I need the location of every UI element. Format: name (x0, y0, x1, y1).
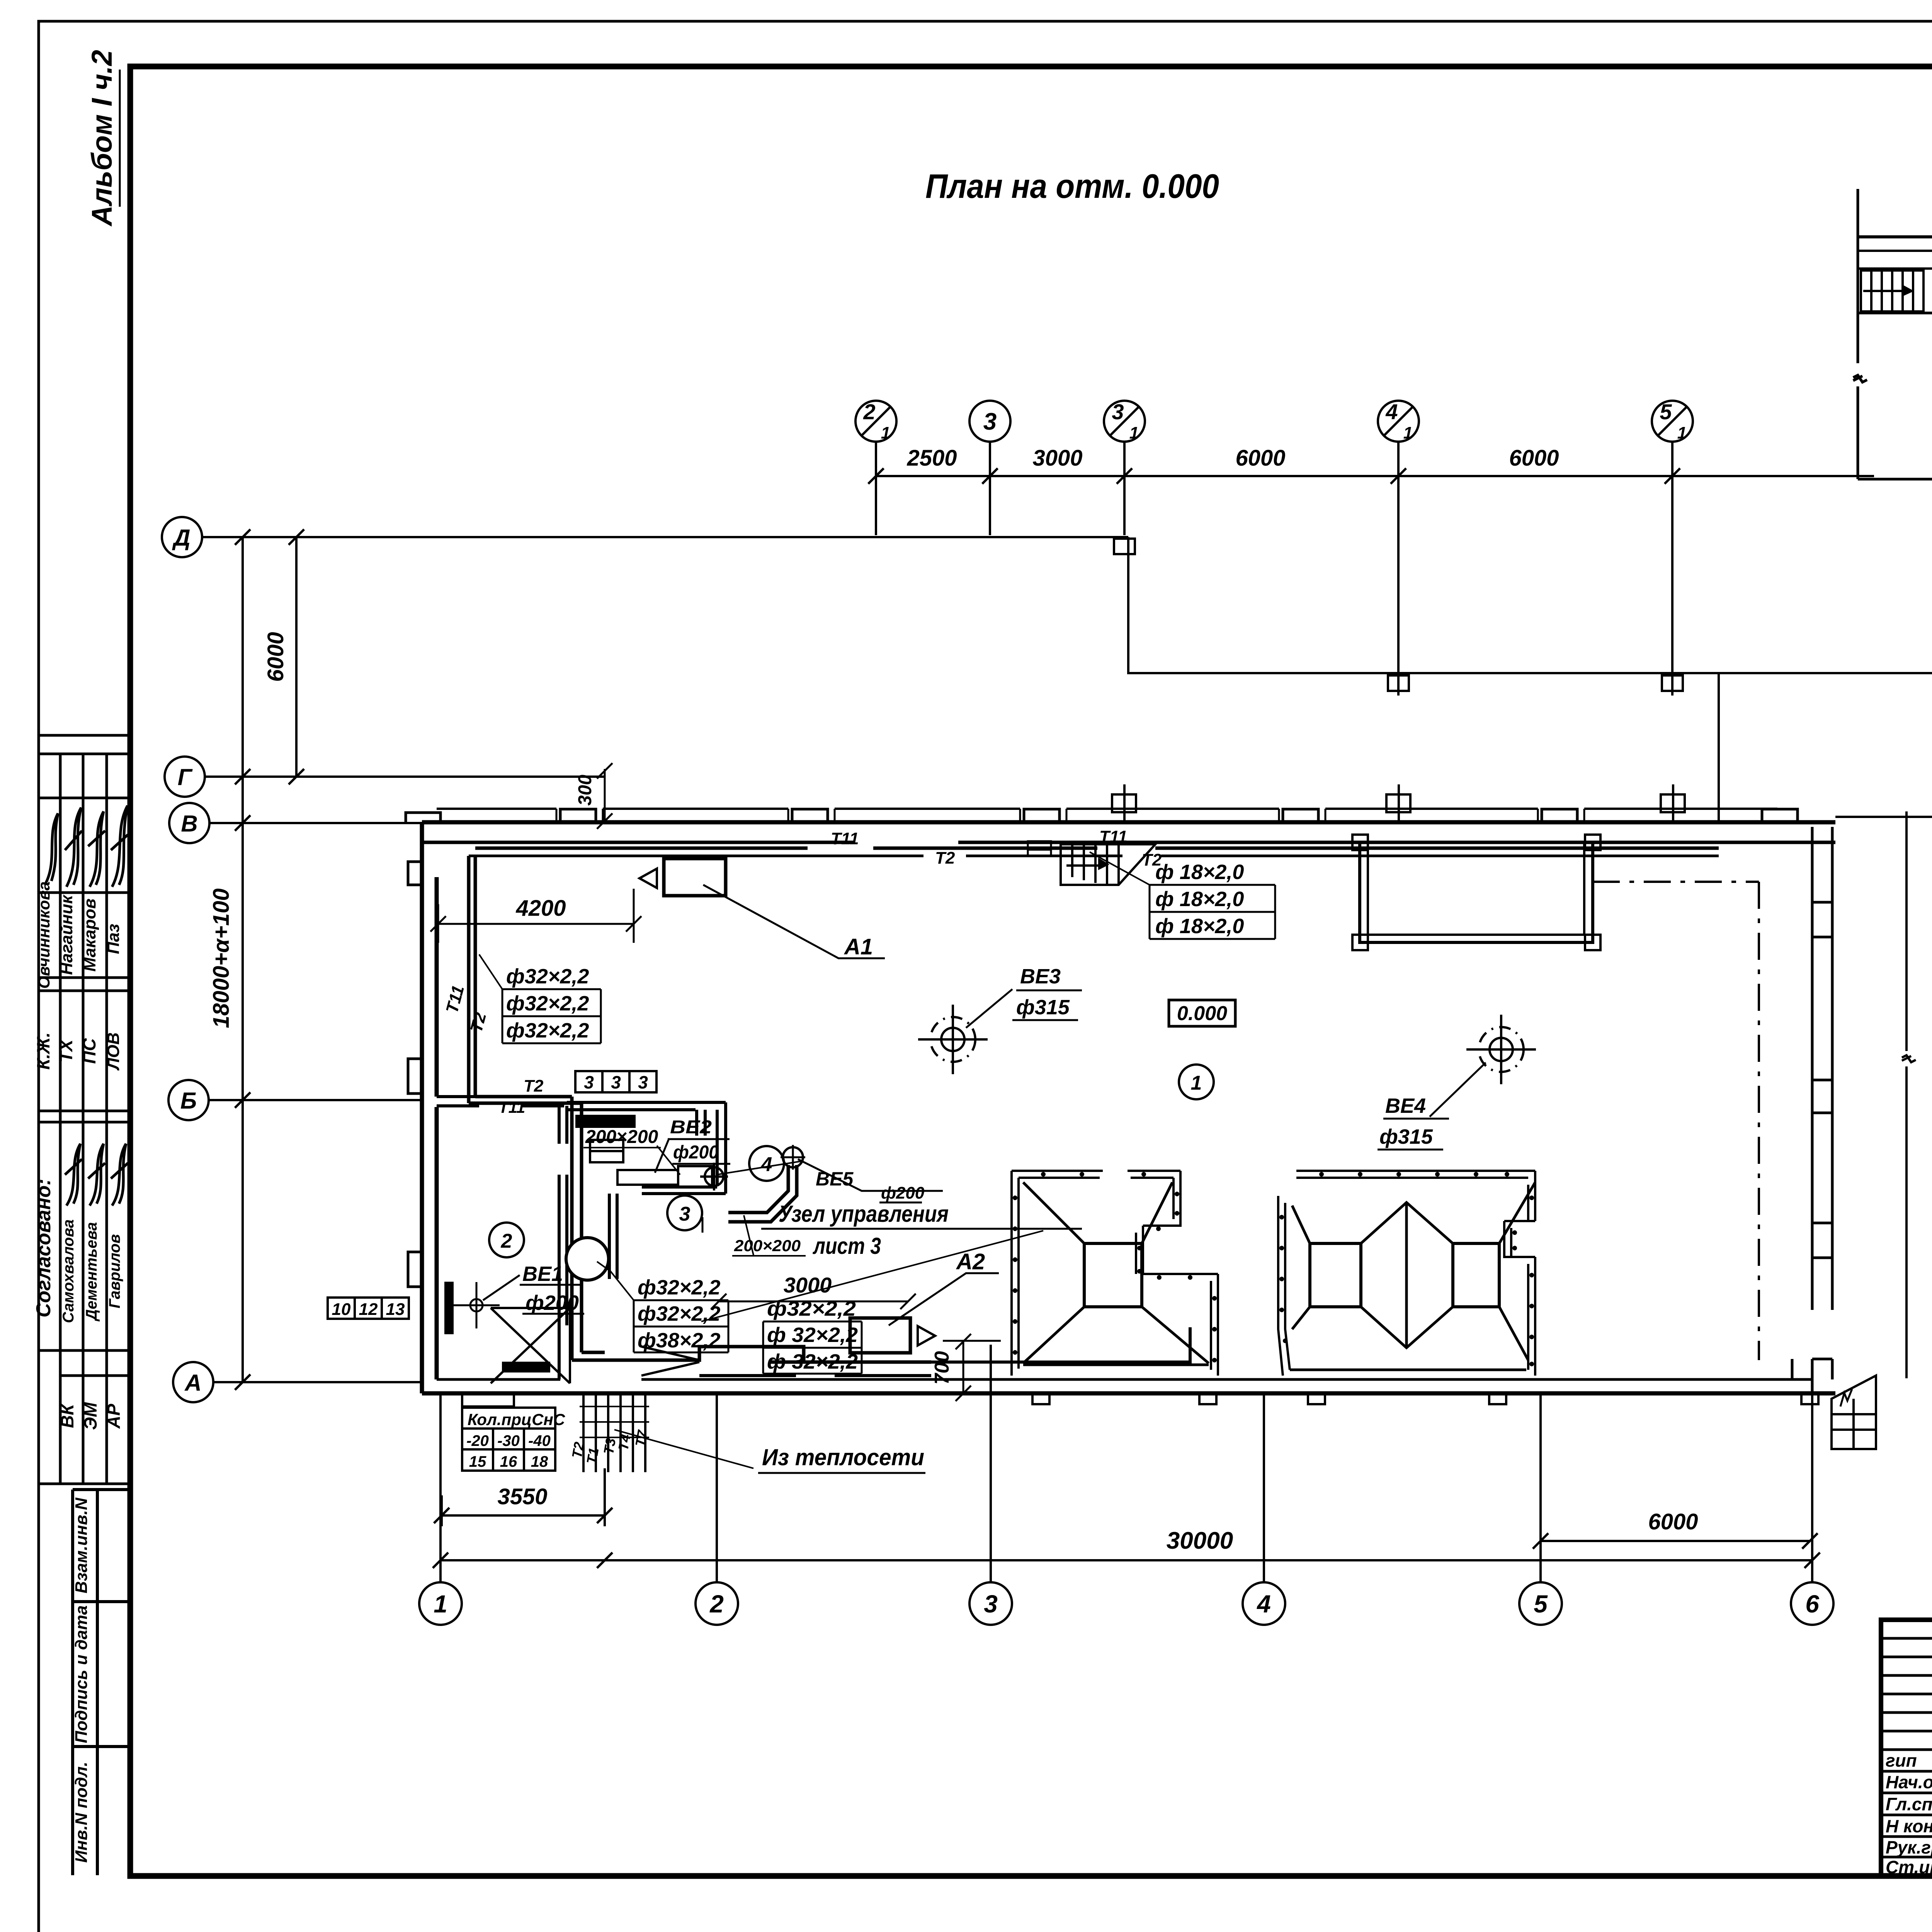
Согласовано + names (32, 1179, 123, 1323)
pipes left riser (469, 856, 582, 1360)
axis circle Г right (1835, 796, 1932, 837)
svg-text:16: 16 (500, 1453, 517, 1470)
thin upper rows (1881, 1638, 1932, 1731)
svg-text:200×200: 200×200 (585, 1127, 658, 1147)
upper plan left edge (1853, 189, 1867, 479)
svg-text:2500: 2500 (906, 446, 957, 471)
svg-text:ф32×2,2: ф32×2,2 (506, 965, 589, 988)
dim 6000 bottom right (1533, 1509, 1818, 1549)
svg-text:Т4: Т4 (615, 1433, 634, 1452)
BE5 elbow duct (728, 1145, 805, 1222)
svg-text:Рук.гр.: Рук.гр. (1886, 1837, 1932, 1857)
svg-text:А1: А1 (844, 934, 873, 959)
BE3 label (966, 965, 1082, 1028)
upper plan top wall (1858, 237, 1932, 269)
svg-text:4: 4 (761, 1153, 772, 1176)
svg-text:3: 3 (983, 408, 997, 435)
svg-text:ф38×2,2: ф38×2,2 (638, 1329, 720, 1352)
svg-text:Взам.инв.N: Взам.инв.N (72, 1497, 91, 1594)
axis circle Б left (168, 1080, 423, 1120)
svg-text:Дементьева: Дементьева (83, 1222, 100, 1322)
svg-text:Т11: Т11 (1099, 827, 1128, 846)
svg-text:К.Ж.: К.Ж. (33, 1032, 53, 1070)
svg-text:3: 3 (984, 1590, 998, 1618)
svg-text:ЭМ: ЭМ (80, 1402, 100, 1430)
dim 3000 interior (711, 1273, 916, 1309)
svg-text:12: 12 (359, 1300, 378, 1319)
dim 4200 (430, 889, 641, 943)
svg-text:3000: 3000 (1032, 446, 1082, 471)
svg-text:Инв.N подл.: Инв.N подл. (72, 1762, 91, 1863)
10 12 13 boxes (328, 1298, 409, 1319)
LEFT STAMP (32, 735, 130, 1875)
svg-text:Кол.прцСнС: Кол.прцСнС (468, 1410, 565, 1429)
heating pipes top wall (469, 841, 1719, 856)
svg-text:ВЕ1: ВЕ1 (522, 1262, 563, 1286)
svg-text:200×200: 200×200 (734, 1236, 801, 1255)
svg-text:3550: 3550 (497, 1484, 547, 1509)
dim 700 (931, 1334, 1001, 1401)
big valve circle (566, 1238, 609, 1280)
svg-text:Паз: Паз (104, 924, 123, 954)
TITLE BLOCK (1881, 1620, 1932, 1916)
dim 3550 (434, 1468, 612, 1526)
stair top center (1061, 844, 1155, 885)
svg-text:АР: АР (104, 1404, 124, 1429)
canopy column mark 3/1 (1114, 539, 1135, 554)
phi32 stack lower right (763, 1297, 862, 1374)
svg-text:ф315: ф315 (1016, 996, 1070, 1019)
UPPER PLAN (1853, 87, 1932, 620)
canopy column mark 5/1 (1662, 673, 1683, 696)
svg-text:13: 13 (386, 1300, 405, 1319)
svg-text:Нач.отд.: Нач.отд. (1886, 1772, 1932, 1792)
svg-text:ВК: ВК (57, 1403, 77, 1428)
svg-text:Подпись и дата: Подпись и дата (72, 1605, 91, 1743)
axis circle 4/1 top (1378, 400, 1419, 673)
bottom wall (422, 1379, 1835, 1406)
svg-text:15: 15 (469, 1453, 486, 1470)
svg-text:ф32×2,2: ф32×2,2 (638, 1302, 720, 1325)
svg-text:В: В (181, 811, 197, 837)
right wall window strip (1792, 827, 1832, 1393)
axis circle 1 bottom (419, 1395, 462, 1625)
svg-text:ВЕ4: ВЕ4 (1385, 1094, 1426, 1117)
svg-text:гип: гип (1886, 1750, 1917, 1770)
phi32 stack lower left (597, 1262, 728, 1352)
phi32 stack left upper (479, 954, 601, 1043)
axis circle В left (169, 803, 423, 843)
MAIN PLAN DETAILS (328, 763, 1876, 1473)
svg-text:1: 1 (1129, 423, 1139, 442)
svg-text:ф315: ф315 (1379, 1125, 1433, 1148)
svg-text:1: 1 (434, 1590, 447, 1618)
vent BE3 symbol (918, 1005, 988, 1074)
svg-text:-30: -30 (497, 1432, 520, 1449)
top wall outer band (422, 809, 1835, 842)
svg-text:Нагайник: Нагайник (57, 894, 76, 975)
svg-text:Т1: Т1 (583, 1447, 602, 1465)
svg-text:Овчинникова: Овчинникова (35, 881, 53, 989)
room circle 1 (1179, 1065, 1214, 1099)
room circle 2 (489, 1223, 524, 1257)
stair flight 1 (1861, 270, 1923, 311)
0.000 level box (1169, 1000, 1235, 1026)
riser bundle to heat main (569, 1393, 651, 1472)
svg-text:Ст.инж: Ст.инж (1886, 1857, 1932, 1877)
phi18 stack top (1090, 852, 1275, 939)
svg-text:ф32×2,2: ф32×2,2 (506, 1019, 589, 1042)
svg-text:6000: 6000 (1648, 1509, 1698, 1534)
interior partition axis Б (437, 1097, 564, 1106)
MAIN PLAN WALLS (406, 537, 1916, 1406)
svg-text:Н контр.: Н контр. (1886, 1816, 1932, 1836)
top wall column crosses (1112, 784, 1685, 822)
left dim 18000+a+100 (209, 529, 250, 1390)
svg-text:0.000: 0.000 (1177, 1002, 1227, 1025)
200x200 label upper (583, 1127, 680, 1175)
svg-text:3: 3 (611, 1072, 621, 1092)
svg-text:ВЕ2: ВЕ2 (670, 1117, 712, 1138)
MAIN PLAN AXES (162, 400, 1932, 1625)
left hopper (1012, 1171, 1218, 1376)
svg-text:Д: Д (172, 525, 190, 551)
upper plan bottom line (1858, 479, 1932, 488)
svg-text:Гаврилов: Гаврилов (106, 1234, 123, 1308)
top dimension line (868, 446, 1874, 484)
pipe labels T11 T2 left (442, 983, 544, 1116)
axis circle 5 bottom (1519, 1395, 1562, 1625)
axis circle 6 bottom (1791, 1395, 1833, 1625)
left hopper rivet dots (1013, 1172, 1217, 1362)
svg-text:ф 18×2,0: ф 18×2,0 (1155, 888, 1244, 911)
svg-text:ф 18×2,0: ф 18×2,0 (1155, 861, 1244, 884)
right hopper rivet dots (1279, 1172, 1534, 1366)
svg-text:700: 700 (931, 1351, 953, 1385)
svg-text:1: 1 (1191, 1072, 1202, 1094)
BE5 label (798, 1159, 943, 1202)
svg-text:4200: 4200 (515, 896, 566, 921)
svg-text:10: 10 (332, 1300, 351, 1319)
svg-text:ф32×2,2: ф32×2,2 (638, 1276, 720, 1299)
svg-text:18: 18 (531, 1453, 548, 1470)
svg-text:2: 2 (863, 400, 875, 424)
signatures row 1 (45, 806, 128, 887)
svg-text:Г: Г (178, 764, 193, 790)
svg-text:Б: Б (180, 1088, 197, 1114)
svg-text:ф200: ф200 (526, 1291, 579, 1315)
axis circle Д left (162, 517, 1128, 557)
bottom dim 30000 (433, 1527, 1820, 1568)
stair bottom edge (1858, 237, 1932, 313)
dim 300 (575, 763, 612, 829)
A1 unit (639, 859, 885, 959)
uzel vvoda room walls (567, 1102, 726, 1279)
stamp upper box grid (39, 735, 130, 1484)
dash-dot opening boundary (1593, 882, 1759, 1360)
kol table (462, 1408, 565, 1471)
right hopper (1278, 1171, 1535, 1376)
svg-text:3: 3 (638, 1072, 648, 1092)
svg-text:ВЕ3: ВЕ3 (1020, 965, 1061, 988)
svg-text:300: 300 (575, 775, 595, 806)
svg-text:-20: -20 (466, 1432, 489, 1449)
svg-text:Т2: Т2 (935, 849, 955, 867)
BE1 symbol and label (453, 1262, 584, 1328)
svg-text:ф200: ф200 (881, 1184, 925, 1202)
svg-text:Гл.спец.: Гл.спец. (1886, 1794, 1932, 1814)
svg-text:Т11: Т11 (498, 1098, 525, 1116)
svg-text:4: 4 (1385, 400, 1398, 424)
BE2 label (655, 1117, 802, 1175)
svg-text:6000: 6000 (1509, 446, 1559, 471)
uzel upravleniya note (701, 1201, 1082, 1321)
svg-text:4: 4 (1256, 1590, 1271, 1618)
canopy outline axis Д step (1128, 537, 1719, 822)
svg-text:Узел управления: Узел управления (779, 1201, 949, 1227)
axis circle 4 bottom (1243, 1395, 1285, 1625)
svg-text:ф32×2,2: ф32×2,2 (506, 992, 589, 1015)
svg-text:2: 2 (501, 1230, 512, 1252)
svg-text:1: 1 (881, 423, 890, 442)
axis circle 3 top (969, 401, 1010, 535)
svg-text:3: 3 (584, 1072, 594, 1092)
BE2 equipment in uzel vvoda (577, 1116, 728, 1190)
svg-text:Из теплосети: Из теплосети (762, 1444, 924, 1470)
svg-text:ф 18×2,0: ф 18×2,0 (1155, 915, 1244, 938)
pipe labels T11 T2 top (831, 827, 1162, 869)
iz teploseti note (614, 1430, 925, 1473)
axis circle 2 bottom (696, 1395, 738, 1625)
svg-text:Согласовано:: Согласовано: (32, 1179, 55, 1317)
break line right of building (1902, 811, 1916, 1378)
svg-text:6: 6 (1805, 1590, 1819, 1618)
interior partition room2 vertical (559, 1106, 567, 1379)
svg-text:3: 3 (679, 1203, 690, 1225)
axis circle Г/1 right (1132, 657, 1932, 699)
name rows (1881, 1750, 1932, 1857)
svg-text:3000: 3000 (784, 1273, 832, 1297)
200x200 label lower (732, 1215, 806, 1256)
svg-text:ТХ: ТХ (56, 1039, 76, 1062)
pipes bottom run (572, 1327, 1190, 1376)
axis circle 5/1 top (1652, 400, 1693, 673)
svg-text:лист 3: лист 3 (813, 1233, 881, 1259)
svg-text:Самохвалова: Самохвалова (60, 1219, 77, 1323)
vent BE4 symbol (1466, 1015, 1536, 1084)
left wall (406, 813, 440, 1393)
svg-text:18000+α+100: 18000+α+100 (209, 888, 234, 1028)
axis circle 3/1 top (1104, 400, 1145, 535)
svg-text:ПС: ПС (79, 1038, 99, 1064)
axis circle 3 bottom (969, 1345, 1012, 1625)
svg-text:3: 3 (1112, 400, 1124, 424)
svg-text:Макаров: Макаров (80, 898, 99, 971)
svg-text:План на отм. 0.000: План на отм. 0.000 (925, 167, 1219, 205)
A2 unit (850, 1249, 999, 1353)
approval labels ВК ЭМ АР (57, 1402, 124, 1430)
album label Альбом I ч.2 (86, 50, 120, 227)
svg-text:6000: 6000 (263, 632, 288, 682)
svg-text:1: 1 (1677, 423, 1687, 442)
svg-text:2: 2 (709, 1590, 724, 1618)
signatures row 2 (65, 1144, 128, 1206)
room circle 3 (667, 1196, 702, 1233)
pipe junction X (491, 1308, 570, 1383)
axis circle 2/1 top (855, 400, 896, 535)
title block frame (1881, 1620, 1932, 1876)
svg-text:А: А (184, 1370, 201, 1396)
MAIN TITLE (925, 167, 1219, 205)
axis circle А left (173, 1362, 423, 1402)
svg-text:ф200: ф200 (673, 1142, 719, 1163)
svg-text:ф 32×2,2: ф 32×2,2 (767, 1323, 858, 1347)
room circle 4 (749, 1146, 784, 1181)
axis circle Г left (165, 757, 605, 822)
svg-text:-40: -40 (528, 1432, 551, 1449)
svg-text:30000: 30000 (1167, 1527, 1233, 1554)
platform room top right (1352, 835, 1600, 950)
svg-text:ЛОВ: ЛОВ (104, 1032, 123, 1071)
role names column (1886, 1750, 1932, 1877)
svg-text:5: 5 (1660, 400, 1672, 424)
svg-text:6000: 6000 (1235, 446, 1285, 471)
svg-text:Альбом I ч.2: Альбом I ч.2 (86, 50, 118, 227)
canopy column mark 4/1 (1388, 673, 1409, 696)
svg-text:Т11: Т11 (831, 829, 859, 848)
discipline labels К.Ж. ТХ ПС ЛОВ (33, 1032, 123, 1071)
svg-text:ф 32×2,2: ф 32×2,2 (767, 1350, 858, 1373)
lower doc column box (73, 1490, 130, 1875)
svg-text:5: 5 (1534, 1590, 1548, 1618)
left dim 6000 (263, 529, 304, 784)
stair bottom right (1832, 1376, 1876, 1449)
svg-text:Т2: Т2 (524, 1077, 544, 1095)
names column: Овчинникова Нагайник Макаров Паз (35, 881, 123, 989)
BE4 label (1378, 1063, 1486, 1150)
radiator bars room2 (444, 1282, 550, 1372)
3 3 3 boxes (575, 1071, 656, 1092)
top wall pilasters (560, 809, 1798, 822)
svg-text:1: 1 (1403, 423, 1413, 442)
